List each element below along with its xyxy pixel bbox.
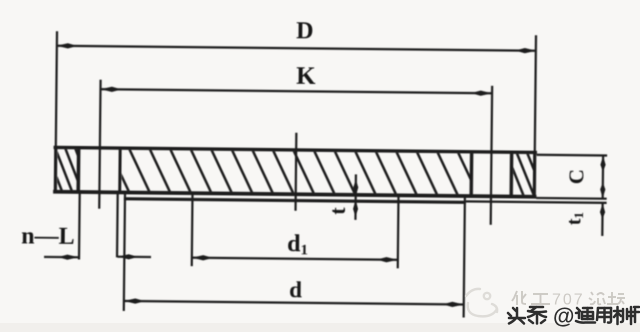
svg-text:C: C [564, 169, 588, 184]
svg-text:d: d [289, 277, 302, 302]
svg-text:n—L: n—L [21, 223, 75, 250]
svg-text:t: t [325, 207, 350, 215]
svg-text:@: @ [553, 304, 574, 329]
svg-text:K: K [296, 63, 316, 90]
svg-text:D: D [296, 18, 314, 44]
